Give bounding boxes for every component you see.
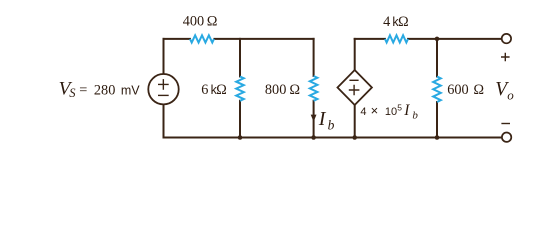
wire diamond top stub — [354, 39, 356, 70]
wire left branch top — [163, 39, 165, 74]
label 4 kohm — [383, 14, 409, 30]
svg-text:5: 5 — [397, 103, 402, 113]
svg-text:400: 400 — [183, 14, 204, 30]
terminal circle top right — [502, 34, 511, 43]
junction dot bottom 6k — [238, 135, 243, 140]
label 4 x 10^5 Ib — [360, 102, 418, 122]
label 6 kohm — [201, 82, 227, 98]
wire diamond bottom stub — [354, 105, 356, 138]
resistor 600 ohm — [433, 77, 441, 103]
resistor 4k ohm — [385, 35, 408, 42]
svg-text:o: o — [507, 87, 514, 102]
dependent source minus sign — [349, 79, 358, 81]
svg-text:=: = — [79, 82, 87, 98]
svg-text:×: × — [371, 103, 379, 118]
svg-text:mV: mV — [121, 83, 140, 97]
wire bottom rail — [164, 137, 502, 139]
wire 800 branch — [313, 39, 315, 138]
junction dot bottom diamond — [352, 135, 357, 140]
svg-text:b: b — [412, 109, 418, 121]
current arrow Ib — [311, 115, 317, 122]
svg-text:I: I — [318, 108, 327, 130]
svg-text:4: 4 — [383, 14, 390, 30]
junction dot top 600 — [435, 37, 440, 42]
svg-text:Ω: Ω — [398, 14, 409, 30]
svg-text:Ω: Ω — [207, 14, 218, 30]
terminal circle bottom right — [502, 133, 511, 142]
label Vo — [495, 79, 514, 102]
wire top rail right section — [355, 38, 502, 40]
svg-text:280: 280 — [94, 82, 115, 98]
wire left branch bottom — [163, 104, 165, 137]
resistor 800 ohm — [310, 76, 318, 101]
voltage source minus sign — [158, 94, 169, 96]
junction dot bottom 800 — [311, 135, 316, 140]
svg-text:I: I — [403, 102, 410, 119]
label 400 ohm — [183, 14, 218, 30]
wire 6k branch — [239, 39, 241, 138]
resistor 6k ohm — [236, 77, 244, 101]
svg-text:10: 10 — [385, 106, 397, 118]
svg-text:Ω: Ω — [289, 82, 300, 98]
resistor 400 ohm — [190, 35, 214, 42]
svg-text:Ω: Ω — [216, 82, 227, 98]
junction dot bottom 600 — [435, 135, 440, 140]
dependent source plus sign — [349, 85, 360, 95]
svg-text:b: b — [328, 118, 335, 133]
svg-text:Ω: Ω — [473, 82, 484, 98]
svg-text:800: 800 — [265, 82, 286, 98]
label VS = 280 mV — [59, 78, 141, 100]
svg-text:6: 6 — [201, 82, 208, 98]
svg-text:4: 4 — [360, 106, 366, 118]
output minus sign — [501, 123, 510, 125]
voltage source plus sign — [158, 79, 169, 90]
wire top rail left section — [164, 38, 314, 40]
label 800 ohm — [265, 82, 300, 98]
dependent source diamond U1 — [338, 70, 372, 105]
wire 600 branch — [436, 39, 438, 138]
label 600 ohm — [447, 82, 484, 98]
output plus sign — [501, 53, 510, 62]
label Ib at arrow — [318, 108, 335, 133]
voltage source VS circle — [148, 74, 178, 104]
svg-text:600: 600 — [447, 82, 468, 98]
svg-text:S: S — [69, 86, 76, 100]
